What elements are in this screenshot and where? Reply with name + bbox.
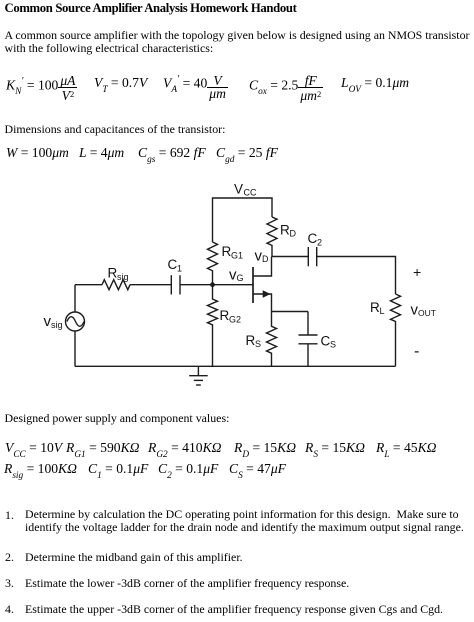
wire C2 to RL xyxy=(317,257,396,295)
wire gate line from source to transistor xyxy=(75,284,253,286)
resistor RG1 xyxy=(208,242,218,285)
svg-text:sig: sig xyxy=(51,320,63,330)
resistor RD xyxy=(267,217,277,257)
svg-text:G2: G2 xyxy=(229,315,241,325)
label RG2 xyxy=(220,308,242,325)
svg-text:D: D xyxy=(290,229,297,239)
svg-text:R: R xyxy=(370,300,380,315)
resistor RG2 xyxy=(208,285,218,367)
svg-text:G: G xyxy=(237,273,244,283)
svg-text:L: L xyxy=(380,306,385,316)
svg-text:D: D xyxy=(262,254,269,264)
label RS xyxy=(246,333,262,349)
transistor Q1 xyxy=(253,257,272,312)
capacitor CS xyxy=(299,335,318,366)
label vG xyxy=(229,267,244,284)
label CS xyxy=(321,334,337,350)
svg-text:R: R xyxy=(108,266,118,281)
wire vD node to C2 xyxy=(272,256,309,258)
values line 1 xyxy=(5,441,62,458)
svg-text:2: 2 xyxy=(317,238,322,248)
svg-text:C: C xyxy=(308,231,318,246)
capacitor C2 xyxy=(308,247,316,266)
capacitor C1 xyxy=(171,275,180,294)
resistor RS xyxy=(267,312,277,367)
resistor RL xyxy=(391,294,401,366)
label RD xyxy=(280,223,297,239)
svg-text:R: R xyxy=(222,244,232,259)
wire VCC top rail xyxy=(213,198,273,242)
label - xyxy=(414,343,419,360)
label Rsig xyxy=(108,266,129,283)
values line 2 xyxy=(4,462,77,479)
label C2 xyxy=(308,231,323,248)
svg-text:C: C xyxy=(321,334,331,349)
designed values heading xyxy=(5,411,230,426)
svg-text:R: R xyxy=(280,223,290,238)
title xyxy=(5,1,297,16)
ground xyxy=(189,366,208,385)
label C1 xyxy=(168,257,183,274)
svg-text:1: 1 xyxy=(177,264,182,274)
node vG junction dot xyxy=(210,282,215,287)
svg-text:CC: CC xyxy=(244,188,257,198)
svg-text:R: R xyxy=(220,308,230,323)
svg-text:G1: G1 xyxy=(231,251,243,261)
svg-text:S: S xyxy=(255,339,261,349)
label RL xyxy=(370,300,385,316)
svg-text:OUT: OUT xyxy=(418,308,436,318)
wire bottom rail xyxy=(75,365,396,367)
label RG1 xyxy=(222,244,244,261)
source vsig circle xyxy=(66,285,85,367)
node VCC label xyxy=(234,182,257,198)
numbered list xyxy=(5,508,14,523)
resistor Rsig xyxy=(102,280,130,290)
wire source node to RS and CS xyxy=(272,312,309,336)
dimensions heading xyxy=(5,122,226,137)
svg-text:R: R xyxy=(246,333,256,348)
label vsig xyxy=(44,313,63,330)
svg-text:S: S xyxy=(330,340,336,350)
svg-text:-: - xyxy=(414,343,419,360)
label vD xyxy=(255,248,270,265)
label vOUT xyxy=(411,302,436,319)
svg-text:C: C xyxy=(168,257,178,272)
electrical characteristics equation line xyxy=(6,76,77,101)
label + xyxy=(413,264,421,280)
svg-text:V: V xyxy=(234,182,243,197)
intro paragraph xyxy=(5,29,473,56)
svg-text:sig: sig xyxy=(117,272,129,282)
dimensions equation line xyxy=(6,146,69,161)
svg-text:+: + xyxy=(413,264,421,280)
